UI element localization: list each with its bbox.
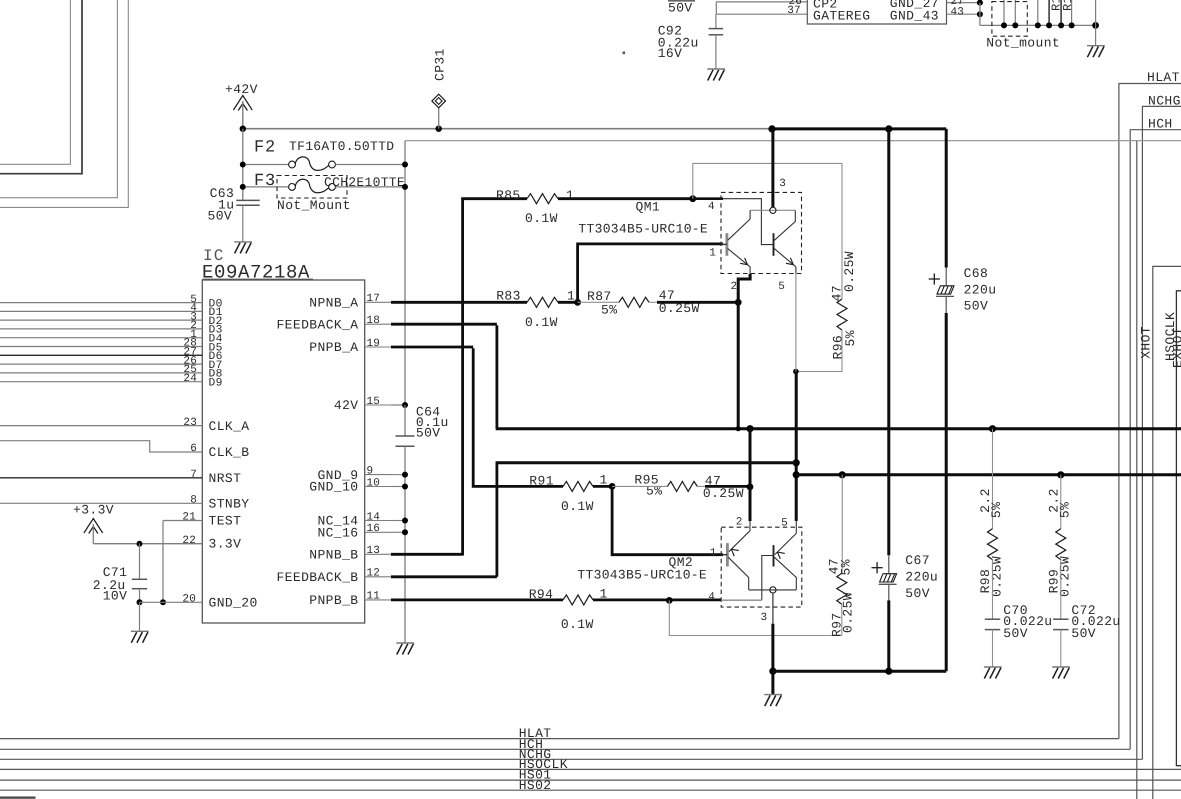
ground bus top right [979, 3, 981, 26]
svg-text:CP31: CP31 [433, 48, 448, 81]
frame: nested box corners top-left [0, 0, 70, 164]
wire FEEDBACK_A net [391, 323, 497, 326]
QM1 base link pin4 [723, 199, 774, 245]
svg-text:50V: 50V [1003, 626, 1028, 641]
resistor R99 [1060, 475, 1062, 529]
svg-text:TT3034B5-URC10-E: TT3034B5-URC10-E [578, 222, 708, 237]
svg-text:5%: 5% [838, 559, 853, 575]
bus line HLAT [0, 738, 1119, 740]
svg-text:GND_10: GND_10 [309, 480, 358, 495]
svg-text:5%: 5% [1057, 502, 1072, 518]
wire pin37 of CP2 [716, 13, 807, 15]
capacitor C68 [945, 129, 948, 268]
svg-text:R85: R85 [496, 188, 521, 203]
svg-text:R94: R94 [529, 587, 554, 602]
wire NPNB_A to R83 [391, 301, 527, 304]
resistor R17x stubs [1048, 0, 1050, 25]
svg-text:HLAT: HLAT [1147, 70, 1180, 85]
svg-text:6: 6 [190, 443, 197, 455]
svg-text:+3.3V: +3.3V [73, 503, 114, 518]
svg-text:17: 17 [367, 293, 381, 305]
svg-text:8: 8 [190, 495, 197, 507]
QM2 collector node circle pin3 [770, 587, 776, 593]
IC CP2 GATEREG (cut at top) [807, 0, 946, 24]
dashed box Not_mount group [992, 2, 1027, 37]
QM1 right emitter with arrow [774, 249, 796, 267]
svg-text:NRST: NRST [209, 471, 242, 486]
IC E09A7218A box [202, 280, 364, 623]
bus line HS02 [0, 789, 1181, 791]
svg-text:GATEREG: GATEREG [813, 9, 870, 24]
svg-text:7: 7 [190, 469, 197, 481]
ground for C92 [707, 68, 725, 70]
svg-text:5: 5 [781, 518, 788, 530]
wire NRST [0, 477, 202, 479]
svg-text:0.1W: 0.1W [525, 211, 558, 226]
QM2 pin2 emitter lead [749, 521, 751, 531]
wire PNPB_B / R94 line [391, 599, 563, 602]
stray tick [623, 52, 626, 55]
svg-text:15: 15 [367, 396, 381, 408]
svg-text:22: 22 [182, 535, 196, 547]
svg-text:4: 4 [708, 591, 715, 603]
svg-text:2: 2 [736, 516, 743, 528]
svg-text:21: 21 [182, 512, 196, 524]
ground for C72 [1052, 666, 1070, 668]
svg-text:50V: 50V [905, 586, 930, 601]
svg-text:50V: 50V [964, 299, 989, 314]
svg-text:10V: 10V [103, 589, 128, 604]
wire R97 bottom link [669, 600, 841, 635]
capacitor C70 [985, 618, 1000, 620]
svg-text:Not_Mount: Not_Mount [277, 198, 351, 213]
svg-text:HS02: HS02 [519, 778, 552, 793]
wire FEEDBACK_B net [391, 575, 497, 578]
svg-text:PNPB_B: PNPB_B [309, 593, 358, 608]
svg-text:0.25W: 0.25W [842, 251, 857, 292]
not-mount resistor stubs [1003, 0, 1005, 25]
svg-text:5%: 5% [843, 330, 858, 346]
resistor R97 [841, 475, 843, 573]
capacitor C92 [715, 14, 717, 28]
wire NPNB_B riser to R85 [391, 553, 463, 556]
svg-text:20: 20 [182, 594, 196, 606]
wire R95 junction risers [749, 429, 752, 487]
QM1 pin5 emitter lead [795, 267, 797, 274]
capacitor C91 (cut at top edge) [668, 0, 695, 2]
QM1 right collector [774, 210, 795, 240]
net XHOT wire [1153, 266, 1181, 799]
svg-text:0.1W: 0.1W [561, 499, 594, 514]
svg-text:QM1: QM1 [636, 199, 661, 214]
svg-text:CLK_A: CLK_A [209, 419, 250, 434]
QM2 right base bar [773, 545, 775, 566]
svg-text:0.25W: 0.25W [841, 592, 856, 633]
QM2 left base bar [726, 543, 729, 566]
wire GND_43 pin [947, 13, 980, 15]
QM1 right base bar [773, 233, 775, 256]
resistor R96 [837, 299, 847, 330]
node fused-42V vertical [404, 141, 406, 405]
svg-text:1: 1 [566, 188, 574, 203]
svg-text:50V: 50V [416, 426, 441, 441]
svg-text:14: 14 [367, 511, 381, 523]
QM2 left collector [728, 557, 749, 590]
wire GND_20 [140, 601, 203, 603]
svg-text:F3: F3 [254, 172, 276, 191]
svg-text:19: 19 [367, 338, 381, 350]
QM2 right collector [774, 557, 796, 590]
svg-text:3: 3 [761, 612, 768, 624]
QM1 left emitter with arrow [728, 249, 750, 267]
resistor R83 [527, 297, 558, 307]
svg-text:NPNB_B: NPNB_B [309, 548, 358, 563]
wire QM1 pin4 into pack [693, 197, 723, 200]
3.3V rail into pin22 [93, 543, 202, 545]
ground for QM2 pin3 [764, 694, 782, 696]
QM2 right emitter with arrow [795, 521, 797, 533]
svg-text:0.1W: 0.1W [525, 315, 558, 330]
svg-text:0.25W: 0.25W [1058, 556, 1073, 597]
svg-text:STNBY: STNBY [209, 497, 250, 512]
ground for C63 [234, 241, 252, 243]
connector box right edge [1176, 291, 1181, 766]
42V rail thick segment [772, 127, 946, 130]
svg-text:220u: 220u [905, 569, 938, 584]
svg-text:2: 2 [731, 281, 738, 293]
resistor R94 [563, 595, 593, 605]
svg-text:220u: 220u [964, 283, 997, 298]
svg-text:FEEDBACK_A: FEEDBACK_A [276, 317, 358, 332]
capacitor C64 [396, 435, 415, 437]
svg-text:18: 18 [367, 315, 381, 327]
svg-text:43: 43 [951, 7, 965, 19]
wire QM1 pin5 heavy drop [795, 372, 798, 522]
wire PNPB_A to R91 [391, 346, 473, 349]
TEST-GND strap vertical [162, 521, 164, 603]
QM1 left base bar [726, 233, 729, 256]
resistor R91 [563, 481, 593, 491]
bus line HCH [0, 748, 1130, 750]
svg-text:C68: C68 [964, 266, 989, 281]
svg-text:R91: R91 [529, 473, 554, 488]
wire pin26 of CP2 [716, 1, 807, 3]
svg-text:16: 16 [367, 523, 381, 535]
svg-text:NC_16: NC_16 [317, 526, 358, 541]
svg-text:1: 1 [709, 248, 716, 260]
svg-text:4: 4 [708, 201, 715, 213]
IC right pin leaders and labels [365, 301, 391, 303]
svg-text:5%: 5% [989, 502, 1004, 518]
svg-text:10: 10 [367, 477, 381, 489]
svg-text:1: 1 [710, 547, 717, 559]
IC ground chain [404, 446, 406, 643]
QM1 collector rail [750, 209, 795, 211]
42V rail horizontal [243, 128, 772, 130]
QM2 pin3 drop to ground rail [772, 593, 774, 624]
wire QM1 pin1 loop [578, 244, 723, 302]
QM1 pin2 emitter lead [749, 267, 751, 274]
svg-text:50V: 50V [1071, 626, 1096, 641]
ground at bus end [1092, 22, 1099, 29]
svg-text:13: 13 [367, 545, 381, 557]
svg-text:24: 24 [183, 373, 197, 385]
capacitor C72 [1053, 618, 1068, 620]
resistor R85 [461, 197, 527, 200]
bus line HSOCLK [0, 768, 1181, 770]
svg-text:16V: 16V [658, 46, 683, 61]
svg-text:5%: 5% [601, 302, 617, 317]
svg-text:9: 9 [367, 465, 374, 477]
svg-text:E09A7218A: E09A7218A [202, 262, 310, 284]
wire mid heavy vertical [887, 129, 890, 555]
42V feed vertical to fuses [242, 129, 244, 201]
resistor R98 [992, 429, 994, 529]
QM2 base link pin4 [762, 556, 774, 601]
fused 42V line B to right edge [405, 140, 1181, 142]
svg-text:PNPB_A: PNPB_A [309, 340, 358, 355]
wire QM2 pin1 loop [612, 486, 723, 554]
svg-text:D9: D9 [209, 378, 223, 390]
wire CLK_A [0, 425, 202, 427]
ground for C71 [131, 630, 149, 632]
svg-text:GND_20: GND_20 [209, 596, 258, 611]
ground for IC [396, 642, 414, 644]
svg-text:+42V: +42V [225, 82, 258, 97]
bus line HS01 [0, 779, 1181, 781]
svg-text:0.25W: 0.25W [989, 556, 1004, 597]
svg-text:50V: 50V [668, 1, 693, 16]
svg-text:11: 11 [367, 591, 381, 603]
svg-text:Not_mount: Not_mount [986, 36, 1060, 51]
wire STNBY [0, 502, 202, 504]
wire CLK_B with jog [0, 441, 202, 452]
ground for C70 [984, 666, 1002, 668]
wire GND_27 pin [947, 2, 980, 4]
svg-text:CLK_B: CLK_B [209, 445, 250, 460]
svg-text:NPNB_A: NPNB_A [309, 296, 358, 311]
svg-text:0.1W: 0.1W [561, 617, 594, 632]
svg-text:XHOT: XHOT [1139, 326, 1154, 359]
svg-text:R83: R83 [496, 289, 521, 304]
svg-text:50V: 50V [208, 208, 233, 223]
svg-text:CCH2E10TTE: CCH2E10TTE [324, 175, 405, 190]
data bus wires D0-D9 [0, 302, 202, 304]
capacitor C67 [888, 555, 890, 573]
svg-text:TT3043B5-URC10-E: TT3043B5-URC10-E [577, 568, 707, 583]
svg-text:0.25W: 0.25W [703, 486, 744, 501]
QM1 collector node circle pin3 [770, 207, 776, 213]
bus line partial at bottom edge [0, 796, 36, 798]
svg-text:12: 12 [367, 568, 381, 580]
capacitor C71 [139, 544, 141, 580]
svg-text:23: 23 [183, 417, 197, 429]
wire sense line lower [796, 473, 1181, 476]
svg-text:37: 37 [787, 5, 801, 17]
wire 42V-B vertical drop [1136, 141, 1138, 799]
svg-text:3.3V: 3.3V [209, 537, 242, 552]
QM1 pin3 to 42V rail [771, 129, 774, 207]
QM1 left collector [728, 210, 750, 240]
wire TEST [163, 520, 202, 522]
bus line NCHG [0, 758, 1142, 760]
svg-text:F2: F2 [254, 139, 276, 158]
svg-text:EXHOT: EXHOT [1171, 327, 1181, 368]
ground return rail [773, 670, 946, 673]
svg-text:42V: 42V [334, 398, 359, 413]
svg-text:5: 5 [778, 281, 785, 293]
svg-text:TF16AT0.50TTD: TF16AT0.50TTD [289, 139, 394, 154]
svg-text:R17: R17 [1061, 0, 1075, 11]
svg-text:3: 3 [779, 178, 786, 190]
svg-text:C67: C67 [905, 553, 930, 568]
svg-text:FEEDBACK_B: FEEDBACK_B [276, 570, 358, 585]
wire R96 top link [693, 163, 842, 299]
42V pin net with C64 [391, 404, 405, 406]
svg-text:TEST: TEST [209, 514, 242, 529]
svg-text:GND_43: GND_43 [890, 9, 939, 24]
QM2 collector rail [749, 589, 797, 591]
